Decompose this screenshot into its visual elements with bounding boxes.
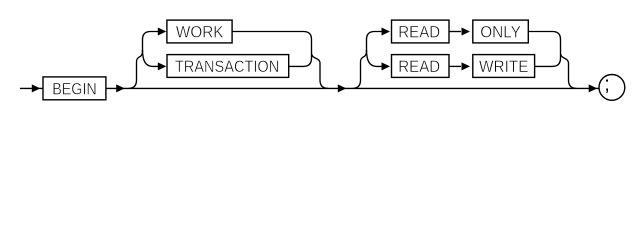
svg-text:WRITE: WRITE: [479, 58, 529, 76]
end terminal circle: [599, 75, 625, 101]
arrow after BEGIN: [116, 84, 125, 92]
wire group2 merge from WRITE: [535, 54, 561, 66]
arrow before terminal circle: [589, 84, 598, 92]
wire group2 branch peel to READ WRITE row: [367, 50, 382, 66]
wire group1 branch riser: [129, 32, 159, 89]
arrow into WRITE: [462, 62, 471, 70]
wire main line: [20, 87, 599, 89]
terminal box WRITE: [473, 55, 535, 78]
wire group2 merge from ONLY: [528, 32, 576, 89]
terminal box READ top: [392, 20, 450, 43]
wire group2 branch riser: [353, 32, 382, 89]
svg-text:READ: READ: [398, 23, 440, 41]
arrow into WORK: [158, 28, 167, 36]
terminal box READ bottom: [392, 55, 450, 78]
svg-text:BEGIN: BEGIN: [52, 80, 97, 98]
arrow into TRANSACTION: [158, 62, 167, 70]
arrow into ONLY: [462, 28, 471, 36]
wire group1 merge from WORK: [232, 32, 328, 89]
terminal box BEGIN: [43, 77, 106, 100]
arrow into READ top: [382, 28, 391, 36]
terminal box TRANSACTION: [167, 55, 289, 78]
terminal box ONLY: [473, 20, 529, 43]
wire READ to ONLY: [449, 31, 461, 33]
svg-text:READ: READ: [398, 58, 440, 76]
svg-text:ONLY: ONLY: [480, 23, 521, 41]
arrow after group1 merge: [338, 84, 347, 92]
svg-text:;: ;: [604, 73, 610, 95]
wire group1 branch peel to TRANSACTION: [143, 50, 159, 66]
svg-text:WORK: WORK: [176, 23, 224, 41]
wire READ to WRITE: [449, 65, 461, 67]
svg-text:TRANSACTION: TRANSACTION: [175, 58, 279, 76]
start arrow: [32, 84, 41, 92]
wire group1 merge from TRANSACTION: [289, 54, 312, 66]
arrow into READ bottom: [382, 62, 391, 70]
terminal box WORK: [167, 20, 232, 43]
